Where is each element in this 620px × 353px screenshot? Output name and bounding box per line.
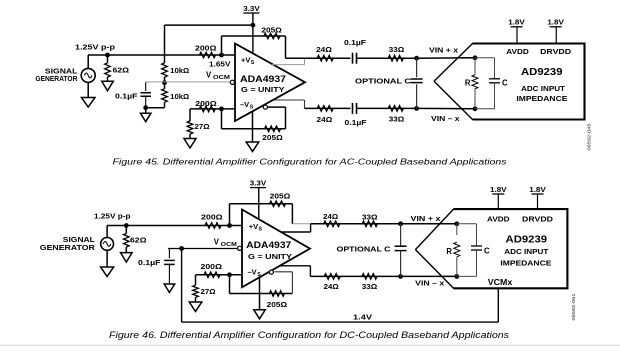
svg-text:VIN – x: VIN – x xyxy=(415,278,445,287)
svg-text:1.25V p-p: 1.25V p-p xyxy=(75,42,116,51)
svg-text:27Ω: 27Ω xyxy=(195,122,210,131)
svg-text:62Ω: 62Ω xyxy=(130,235,147,244)
svg-text:VCMx: VCMx xyxy=(488,278,513,287)
svg-text:1.25V p-p: 1.25V p-p xyxy=(94,212,131,221)
svg-text:24Ω: 24Ω xyxy=(323,212,338,221)
svg-text:OPTIONAL C: OPTIONAL C xyxy=(355,77,412,86)
svg-text:AD9239: AD9239 xyxy=(521,67,563,78)
svg-text:0.1µF: 0.1µF xyxy=(344,38,367,47)
svg-text:GENERATOR: GENERATOR xyxy=(35,74,78,83)
svg-text:0.1µF: 0.1µF xyxy=(345,118,368,127)
svg-text:VIN + x: VIN + x xyxy=(429,45,459,54)
svg-text:DRVDD: DRVDD xyxy=(540,47,571,56)
svg-text:ADC INPUT: ADC INPUT xyxy=(504,247,548,256)
svg-text:ADC INPUT: ADC INPUT xyxy=(521,84,565,93)
svg-text:C: C xyxy=(484,247,490,256)
svg-text:Figure 45. Differential Amplif: Figure 45. Differential Amplifier Config… xyxy=(113,156,507,166)
svg-text:VIN – x: VIN – x xyxy=(431,114,461,123)
svg-text:1.8V: 1.8V xyxy=(547,18,564,27)
svg-text:200Ω: 200Ω xyxy=(201,212,223,221)
svg-text:33Ω: 33Ω xyxy=(389,114,405,123)
svg-text:+V: +V xyxy=(241,56,250,65)
svg-text:–V: –V xyxy=(248,268,257,277)
svg-text:06592-045: 06592-045 xyxy=(587,123,592,151)
svg-text:0.1µF: 0.1µF xyxy=(115,92,138,101)
svg-text:VIN + x: VIN + x xyxy=(411,214,442,223)
svg-text:ADA4937: ADA4937 xyxy=(240,74,286,85)
svg-text:24Ω: 24Ω xyxy=(317,115,333,124)
svg-text:10kΩ: 10kΩ xyxy=(170,66,189,75)
svg-text:62Ω: 62Ω xyxy=(113,65,130,74)
svg-text:S: S xyxy=(251,60,255,66)
svg-text:24Ω: 24Ω xyxy=(316,45,332,54)
svg-text:0.1µF: 0.1µF xyxy=(138,258,161,267)
svg-text:R: R xyxy=(446,247,452,256)
svg-text:205Ω: 205Ω xyxy=(267,300,288,309)
svg-text:06592-061: 06592-061 xyxy=(571,293,576,321)
svg-text:AVDD: AVDD xyxy=(506,47,529,56)
svg-text:V: V xyxy=(214,237,220,246)
svg-text:OCM: OCM xyxy=(221,242,238,248)
svg-text:27Ω: 27Ω xyxy=(201,287,216,296)
svg-text:200Ω: 200Ω xyxy=(195,43,217,52)
svg-text:1.65V: 1.65V xyxy=(209,60,231,69)
svg-text:205Ω: 205Ω xyxy=(262,133,283,142)
svg-text:24Ω: 24Ω xyxy=(324,282,339,291)
svg-text:G = UNITY: G = UNITY xyxy=(241,85,285,94)
svg-text:S: S xyxy=(257,272,261,278)
svg-text:IMPEDANCE: IMPEDANCE xyxy=(516,94,567,103)
svg-text:200Ω: 200Ω xyxy=(195,99,217,108)
svg-text:10kΩ: 10kΩ xyxy=(170,92,189,101)
svg-text:1.8V: 1.8V xyxy=(529,185,546,194)
svg-text:Figure 46. Differential Amplif: Figure 46. Differential Amplifier Config… xyxy=(109,330,510,340)
svg-text:–V: –V xyxy=(240,100,249,109)
svg-text:3.3V: 3.3V xyxy=(250,179,267,188)
svg-text:1.4V: 1.4V xyxy=(353,312,372,321)
svg-text:S: S xyxy=(259,226,263,232)
svg-text:GENERATOR: GENERATOR xyxy=(40,243,96,252)
svg-text:G = UNITY: G = UNITY xyxy=(248,252,292,261)
svg-text:DRVDD: DRVDD xyxy=(522,214,553,223)
svg-text:205Ω: 205Ω xyxy=(261,25,282,34)
svg-text:R: R xyxy=(465,78,471,87)
svg-text:AD9239: AD9239 xyxy=(506,234,548,245)
svg-text:OPTIONAL C: OPTIONAL C xyxy=(337,245,392,254)
svg-text:3.3V: 3.3V xyxy=(243,4,260,13)
svg-text:200Ω: 200Ω xyxy=(201,262,223,271)
svg-text:+V: +V xyxy=(249,222,258,231)
svg-text:IMPEDANCE: IMPEDANCE xyxy=(500,258,551,267)
svg-text:33Ω: 33Ω xyxy=(362,282,378,291)
svg-text:205Ω: 205Ω xyxy=(270,192,291,201)
svg-text:OCM: OCM xyxy=(213,75,231,81)
svg-text:S: S xyxy=(250,105,254,111)
svg-text:33Ω: 33Ω xyxy=(362,213,378,222)
svg-text:1.8V: 1.8V xyxy=(508,18,525,27)
svg-text:33Ω: 33Ω xyxy=(389,45,405,54)
svg-text:AVDD: AVDD xyxy=(487,214,510,223)
svg-text:V: V xyxy=(206,71,212,80)
svg-text:ADA4937: ADA4937 xyxy=(246,240,291,251)
svg-text:C: C xyxy=(502,78,508,87)
svg-text:1.8V: 1.8V xyxy=(490,185,507,194)
